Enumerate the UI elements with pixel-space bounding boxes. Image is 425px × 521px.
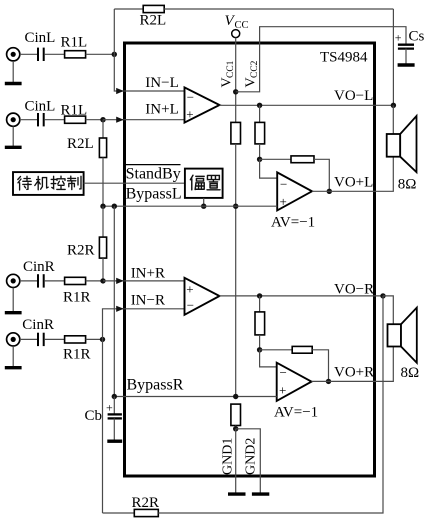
wire node down to IN-L corner bbox=[114, 54, 184, 91]
connector CinR jack 3 bbox=[7, 274, 20, 287]
wire VCC terminal down pin VCC1 bbox=[235, 38, 237, 123]
svg-text:R1R: R1R bbox=[63, 347, 91, 363]
wire node A to inverting input op2L bbox=[260, 159, 278, 178]
node junction VO+R bbox=[326, 379, 331, 384]
wire right rail down to VO-L bbox=[392, 9, 394, 105]
node junction IN+R bbox=[100, 278, 105, 283]
svg-text:R2L: R2L bbox=[67, 136, 94, 152]
wire jack1 to cap bbox=[20, 53, 37, 55]
ground (jack 1) bbox=[5, 61, 22, 84]
svg-text:StandBy: StandBy bbox=[126, 165, 181, 182]
wire cap to R1R row3 bbox=[45, 280, 65, 282]
resistor R2R (feedback bottom) bbox=[134, 509, 158, 516]
ground (GND2) bbox=[252, 492, 269, 495]
pin label StandBy (overline) bbox=[126, 165, 181, 183]
pin label GND2 bbox=[244, 438, 259, 475]
node junction VO-R tap bbox=[257, 293, 262, 298]
wire R2L bottom to BypassL bbox=[102, 158, 104, 207]
connector CinL jack 2 bbox=[7, 113, 20, 126]
svg-text:−: − bbox=[280, 176, 287, 191]
ground (Cs) bbox=[398, 63, 415, 66]
capacitor Cs bbox=[395, 31, 414, 49]
svg-text:BypassR: BypassR bbox=[127, 377, 184, 394]
capacitor CinR (row 3) bbox=[38, 274, 44, 287]
wire R2R top from BypassL node bbox=[102, 206, 104, 237]
resistor R2R (vertical bias) bbox=[99, 237, 106, 258]
wire IN+L node down to R2L bbox=[102, 120, 104, 138]
svg-text:CinL: CinL bbox=[25, 99, 56, 115]
ground (jack 3) bbox=[5, 288, 22, 313]
speaker LS2 (right 8 ohm) bbox=[383, 296, 417, 363]
ground (jack 4) bbox=[5, 346, 22, 368]
svg-text:+: + bbox=[395, 31, 402, 45]
wire bypass rail down to BypassR bbox=[113, 206, 115, 396]
node junction VO+L bbox=[327, 189, 332, 194]
connector CinR jack 4 bbox=[7, 333, 20, 346]
node junction BypassR/Cb bbox=[112, 394, 117, 399]
resistor R2L (feedback top) bbox=[143, 5, 164, 12]
svg-text:+: + bbox=[186, 281, 193, 296]
svg-text:VO−R: VO−R bbox=[334, 282, 374, 298]
wire cap to R1R row4 bbox=[45, 338, 65, 340]
node junction VO-L / R2L rail / speaker bbox=[391, 103, 396, 108]
pin arrow IN-L bbox=[116, 88, 124, 94]
wire Cb to ground bbox=[113, 418, 115, 440]
op-amp A4 (right inverter AV=-1) bbox=[277, 363, 312, 401]
resistor internal (bypass to GND) bbox=[231, 404, 241, 425]
wire R1L to node bbox=[86, 53, 115, 55]
node junction BypassL/Cb rail bbox=[112, 204, 117, 209]
op-amp A1 (left input amp) bbox=[185, 87, 220, 122]
label 待 (standby box char 1) bbox=[18, 176, 31, 190]
wire Cs to ground bbox=[405, 49, 407, 64]
resistor internal (VO-R to node B) bbox=[255, 312, 265, 335]
svg-text:VO−L: VO−L bbox=[334, 88, 373, 104]
node junction VO-R rail bbox=[380, 293, 385, 298]
connector CinL jack 1 bbox=[7, 48, 20, 61]
node junction IN-R bbox=[100, 337, 105, 342]
wire bias box to BypassL bbox=[203, 198, 205, 206]
resistor internal (VO-L to node A) bbox=[255, 122, 265, 143]
block bias box (偏置) bbox=[185, 169, 223, 198]
wire node B to feedback resistor bbox=[260, 349, 293, 351]
label 偏 (bias box char 1) bbox=[190, 175, 204, 190]
svg-text:R2R: R2R bbox=[132, 495, 160, 511]
wire R2L left segment bbox=[114, 8, 143, 10]
wire cap to R1L bbox=[45, 53, 65, 55]
capacitor Cb bbox=[106, 397, 122, 419]
svg-text:R2R: R2R bbox=[67, 243, 95, 259]
ground (Cb) bbox=[107, 440, 122, 443]
wire IN+R into box bbox=[103, 280, 185, 282]
svg-text:8Ω: 8Ω bbox=[398, 177, 417, 193]
svg-text:8Ω: 8Ω bbox=[401, 365, 420, 381]
svg-text:−: − bbox=[280, 365, 287, 380]
svg-text:R1L: R1L bbox=[61, 35, 88, 51]
svg-text:CC: CC bbox=[235, 20, 249, 31]
wire jack3 to cap bbox=[20, 280, 37, 282]
svg-text:R1R: R1R bbox=[63, 290, 91, 306]
resistor internal (VCC to bypass) bbox=[231, 122, 241, 143]
wire BypassR line bbox=[114, 396, 276, 398]
node junction VCC1/VCC2 bbox=[233, 89, 238, 94]
capacitor CinL (row 2) bbox=[38, 113, 44, 126]
svg-text:CinL: CinL bbox=[25, 30, 56, 46]
node junction bias stub bbox=[201, 204, 206, 209]
capacitor CinR (row 4) bbox=[38, 333, 44, 346]
svg-text:TS4984: TS4984 bbox=[320, 50, 368, 66]
wire resistor to node B bbox=[259, 335, 261, 350]
wire node B to inverting input op2R bbox=[260, 350, 277, 367]
svg-text:R2L: R2L bbox=[140, 13, 167, 29]
wire R1R to IN+R node bbox=[86, 280, 103, 282]
wire VO+R to speaker bbox=[312, 347, 394, 381]
wire IN-R node up and into box bbox=[103, 309, 185, 340]
resistor R1L (row 1) bbox=[65, 51, 86, 58]
node A junction bbox=[257, 157, 262, 162]
terminal VCC bbox=[232, 30, 240, 38]
pin arrow IN-R bbox=[116, 306, 124, 312]
pin arrow IN+R bbox=[116, 278, 124, 284]
svg-text:AV=−1: AV=−1 bbox=[271, 215, 315, 231]
label 制 (standby box char 4) bbox=[68, 176, 81, 189]
wire IN-R node down to bottom feedback bbox=[102, 339, 104, 513]
wire BypassL line bbox=[103, 205, 277, 207]
resistor R1L (row 2) bbox=[65, 116, 86, 123]
wire VO-R tap down bbox=[259, 296, 261, 312]
node junction row1 bbox=[112, 52, 117, 57]
node junction GND1/GND2 bbox=[233, 426, 238, 431]
pin label GND1 bbox=[221, 438, 236, 475]
svg-text:GND1: GND1 bbox=[221, 438, 236, 475]
pin label VCC2 bbox=[244, 60, 261, 87]
wire resistor to node A bbox=[259, 144, 261, 159]
svg-text:VO+R: VO+R bbox=[334, 365, 374, 381]
block standby control box (待机控制) bbox=[13, 172, 84, 195]
node junction bias/BypassL bbox=[233, 204, 238, 209]
wire VO-L (amp output to right rail) bbox=[220, 104, 394, 106]
wire node up to R2L line bbox=[113, 9, 115, 54]
svg-text:IN+R: IN+R bbox=[131, 265, 165, 281]
wire VO-R (amp output to right rail) bbox=[220, 295, 384, 297]
pin label VCC1 bbox=[220, 60, 237, 87]
wire pin GND2 jog down to ground bbox=[236, 429, 261, 493]
wire node A to feedback resistor bbox=[260, 158, 291, 160]
node junction BypassR/bias chain bbox=[233, 394, 238, 399]
wire VO+L to speaker bbox=[312, 157, 393, 191]
ground (GND1) bbox=[228, 492, 246, 495]
wire feedback to VO+R node bbox=[312, 350, 328, 382]
wire jack2 to cap bbox=[20, 119, 37, 121]
svg-text:BypassL: BypassL bbox=[126, 186, 182, 203]
svg-text:IN+L: IN+L bbox=[145, 102, 178, 118]
wire IN+L into box bbox=[103, 119, 185, 121]
wire feedback to VO+L node bbox=[314, 159, 329, 191]
IC box U1 TS4984 bbox=[125, 43, 375, 476]
svg-text:CinR: CinR bbox=[22, 317, 54, 333]
wire R2R bottom to IN+R node bbox=[102, 258, 104, 281]
svg-text:−: − bbox=[187, 297, 194, 312]
svg-text:AV=−1: AV=−1 bbox=[274, 405, 318, 421]
label 控 (standby box char 3) bbox=[51, 176, 65, 189]
svg-text:+: + bbox=[106, 401, 113, 415]
node junction VO-L tap bbox=[257, 103, 262, 108]
pin arrow IN+L bbox=[116, 117, 124, 123]
wire StandBy line bbox=[84, 182, 185, 184]
wire pin VCC2 jog bbox=[236, 27, 406, 92]
wire jack4 to cap bbox=[20, 338, 37, 340]
node junction IN+L bbox=[100, 117, 105, 122]
resistor internal feedback (op2R) bbox=[292, 346, 312, 353]
wire VO-L tap down bbox=[259, 105, 261, 122]
speaker LS1 (left 8 ohm) bbox=[387, 105, 417, 172]
wire R1R to IN-R node bbox=[86, 338, 103, 340]
svg-text:CC2: CC2 bbox=[250, 60, 260, 78]
wire cap to R1L row2 bbox=[45, 119, 65, 121]
wire R1L to IN+L node bbox=[86, 119, 103, 121]
op-amp A3 (right input amp) bbox=[185, 278, 220, 315]
svg-text:GND2: GND2 bbox=[244, 438, 259, 475]
svg-text:+: + bbox=[280, 194, 287, 209]
svg-text:Cb: Cb bbox=[85, 408, 103, 424]
label 置 (bias box char 2) bbox=[207, 175, 220, 189]
resistor R1R (row 3) bbox=[65, 277, 86, 284]
svg-text:−: − bbox=[187, 89, 194, 104]
svg-text:+: + bbox=[279, 382, 286, 397]
wire resistor to GND node bbox=[235, 426, 237, 429]
wire pin GND1 down to ground bbox=[235, 429, 237, 493]
wire bias chain down to BypassL and BypassR bbox=[235, 144, 237, 397]
ground (jack 2) bbox=[5, 126, 22, 147]
wire R2L right segment to right rail bbox=[164, 8, 393, 10]
wire bottom feedback left segment bbox=[103, 512, 135, 514]
resistor internal feedback (op2L) bbox=[291, 156, 314, 163]
wire bottom feedback right segment and right rail up to VO-R bbox=[158, 296, 383, 513]
svg-text:CinR: CinR bbox=[23, 259, 55, 275]
capacitor CinL (row 1) bbox=[38, 48, 44, 61]
resistor R2L (vertical bias) bbox=[99, 138, 106, 158]
node junction BypassL/R2 chain bbox=[100, 204, 105, 209]
node B junction bbox=[257, 347, 262, 352]
op-amp A2 (left inverter AV=-1) bbox=[277, 172, 312, 210]
svg-text:Cs: Cs bbox=[409, 29, 425, 45]
resistor R1R (row 4) bbox=[65, 336, 86, 343]
svg-text:VO+L: VO+L bbox=[334, 174, 373, 190]
svg-text:IN−R: IN−R bbox=[131, 293, 165, 309]
svg-text:+: + bbox=[186, 107, 193, 122]
svg-text:IN−L: IN−L bbox=[145, 75, 178, 91]
svg-text:CC1: CC1 bbox=[226, 60, 236, 78]
label 机 (standby box char 2) bbox=[35, 176, 48, 189]
